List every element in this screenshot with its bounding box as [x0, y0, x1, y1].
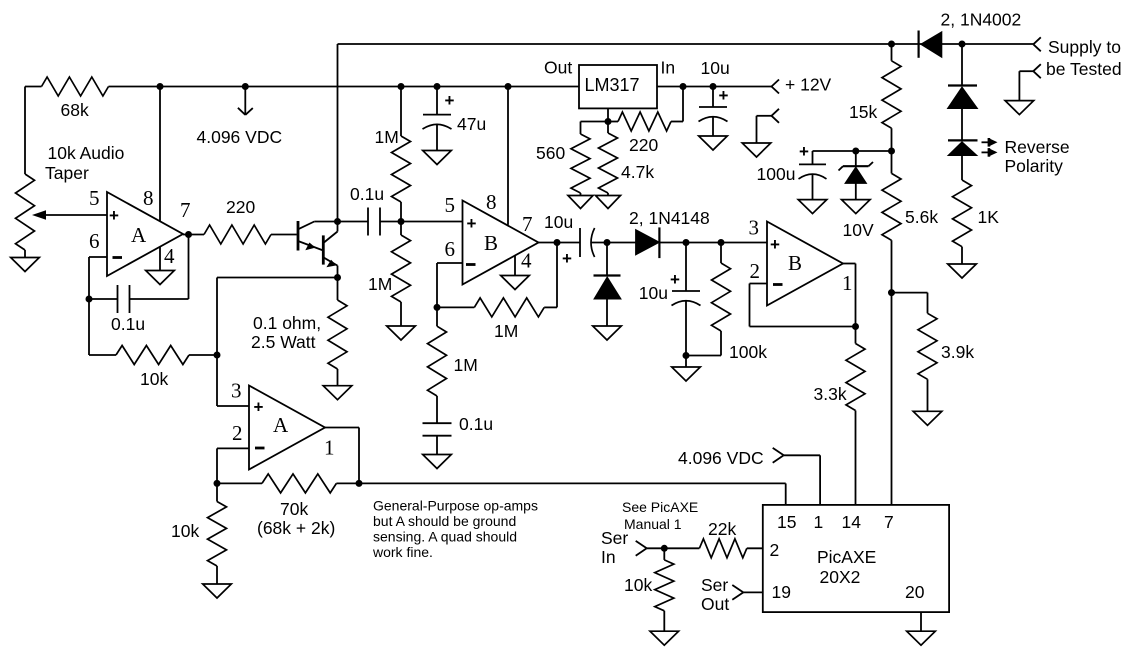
wire LM317 in rail: [657, 86, 772, 88]
node 4.096 VDC arrow: [242, 83, 249, 90]
svg-text:7: 7: [180, 198, 191, 222]
ground 4.7k: [596, 196, 621, 209]
svg-text:+: +: [670, 270, 680, 289]
wire U2A pin2: [217, 447, 249, 449]
wire left column to A2 pin3: [216, 278, 218, 407]
svg-text:7: 7: [522, 212, 533, 236]
svg-text:8: 8: [486, 190, 497, 214]
capacitor 10u input: [712, 87, 714, 108]
top supply rail (wire): [338, 43, 1034, 45]
svg-text:2: 2: [750, 259, 761, 283]
ground 3.9k: [913, 411, 942, 425]
transistor Q1: [297, 221, 300, 251]
wire to zener: [813, 150, 892, 152]
svg-text:+ 12V: + 12V: [785, 75, 832, 95]
wire U2B out: [843, 263, 856, 265]
connector Supply to be Tested: [1033, 37, 1041, 44]
capacitor 10u coupling: [579, 228, 581, 257]
wire Q1 collector: [314, 221, 337, 223]
svg-text:Reverse: Reverse: [1005, 137, 1070, 157]
svg-text:10u: 10u: [701, 58, 730, 78]
svg-text:19: 19: [772, 582, 791, 602]
wire diode to B2: [659, 242, 767, 244]
svg-text:B: B: [788, 251, 802, 275]
svg-text:3: 3: [749, 216, 760, 240]
wire pot bottom: [24, 250, 26, 258]
svg-text:220: 220: [629, 135, 658, 155]
svg-text:3.9k: 3.9k: [941, 342, 974, 362]
svg-text:4: 4: [521, 249, 532, 273]
svg-text:20: 20: [905, 582, 925, 602]
svg-text:6: 6: [445, 237, 456, 261]
ground 10u input: [699, 136, 728, 150]
svg-text:1: 1: [842, 271, 853, 295]
svg-text:7: 7: [884, 512, 894, 532]
svg-text:560: 560: [536, 143, 565, 163]
svg-text:100k: 100k: [729, 342, 767, 362]
resistor 3.9k: [892, 292, 928, 294]
resistor 1M feedback: [474, 298, 544, 317]
connector 12V return: [772, 109, 780, 116]
wire U1A output: [183, 234, 204, 236]
wire cap2 left: [338, 221, 369, 223]
resistor 220 adj: [608, 121, 618, 123]
wire U1A pin6: [89, 256, 107, 258]
svg-text:1M: 1M: [368, 274, 392, 294]
svg-text:1: 1: [324, 436, 335, 460]
zener diode 10V: [855, 151, 857, 166]
resistor 10k pulldown: [663, 548, 665, 560]
node fb left: [214, 480, 221, 487]
svg-text:LM317: LM317: [585, 75, 640, 95]
svg-text:5.6k: 5.6k: [905, 207, 938, 227]
svg-text:6: 6: [89, 229, 100, 253]
svg-text:10u: 10u: [544, 212, 573, 232]
wire 4.096 rail long: [359, 482, 786, 484]
wire U1B pin4: [514, 256, 516, 276]
svg-text:14: 14: [842, 512, 862, 532]
svg-text:68k: 68k: [61, 100, 89, 120]
LED arrows: [982, 141, 990, 143]
node 5.6k bottom: [888, 289, 895, 296]
wire left column: [24, 87, 26, 175]
ground U1B: [501, 276, 530, 290]
resistor 1M upper: [400, 87, 402, 137]
svg-text:1: 1: [814, 512, 824, 532]
resistor 220: [204, 225, 271, 244]
svg-text:+: +: [445, 91, 455, 110]
wire U2A pin3: [217, 405, 249, 407]
resistor 70k: [217, 482, 262, 484]
svg-text:10k Audio: 10k Audio: [48, 143, 125, 163]
wire 4.096V rail: [109, 86, 580, 88]
resistor 5.6k: [891, 151, 893, 173]
diode D1 1N4148: [636, 230, 660, 255]
diode D2 1N4148: [606, 243, 608, 276]
svg-text:1K: 1K: [978, 207, 1000, 227]
svg-text:70k: 70k: [280, 499, 308, 519]
wire U1A pin4: [159, 247, 161, 271]
wire U2B pin2: [750, 283, 768, 285]
op-amp U1A: [107, 192, 183, 276]
wire U1B pin6: [437, 262, 463, 264]
svg-text:0.1u: 0.1u: [350, 184, 384, 204]
resistor 560: [581, 121, 609, 123]
regulator LM317: [579, 65, 657, 108]
ground 10k pulldown: [650, 631, 679, 645]
ground zener: [842, 200, 871, 214]
wire U1A pin8: [159, 87, 161, 222]
svg-text:2, 1N4002: 2, 1N4002: [941, 10, 1022, 30]
svg-text:PicAXE: PicAXE: [817, 547, 876, 567]
node diode anode: [959, 41, 966, 48]
svg-text:Polarity: Polarity: [1005, 156, 1064, 176]
wire U1B out: [539, 242, 580, 244]
node 15k bottom: [888, 148, 895, 155]
resistor 22k: [699, 539, 746, 558]
op-amp U1B: [463, 201, 539, 285]
wire U1B feedback riser: [556, 243, 558, 308]
svg-text:5: 5: [89, 186, 100, 210]
wire Ser In: [647, 547, 700, 549]
svg-text:+: +: [254, 398, 264, 417]
svg-text:+: +: [562, 249, 572, 268]
transistor Q2: [322, 235, 325, 264]
potentiometer 10k Audio Taper: [16, 174, 35, 250]
ground 12V return: [742, 143, 771, 157]
svg-text:10k: 10k: [624, 575, 652, 595]
wire base: [271, 234, 297, 236]
svg-text:Ser: Ser: [601, 528, 628, 548]
svg-text:Supply to: Supply to: [1048, 37, 1121, 57]
svg-text:2: 2: [770, 540, 780, 560]
connector supply return: [1033, 64, 1041, 71]
svg-text:47u: 47u: [457, 114, 486, 134]
wire pin20 ground: [920, 612, 922, 631]
resistor 1K: [961, 156, 963, 181]
svg-text:15k: 15k: [849, 102, 877, 122]
svg-text:work fine.: work fine.: [372, 544, 433, 560]
svg-text:10k: 10k: [140, 369, 168, 389]
svg-text:In: In: [661, 58, 676, 78]
svg-text:1M: 1M: [454, 355, 478, 375]
svg-text:2, 1N4148: 2, 1N4148: [629, 208, 710, 228]
svg-text:3: 3: [231, 379, 242, 403]
svg-text:Ser: Ser: [701, 575, 728, 595]
wire 4.096V rail left segment: [25, 86, 42, 88]
ground U1A: [146, 271, 175, 285]
svg-text:5: 5: [445, 193, 456, 217]
svg-text:+: +: [109, 206, 119, 225]
svg-text:+: +: [719, 86, 729, 105]
ground D2: [593, 326, 622, 340]
svg-text:In: In: [601, 547, 616, 567]
svg-text:15: 15: [777, 512, 796, 532]
wire cap left: [89, 298, 118, 300]
svg-text:General-Purpose op-amps: General-Purpose op-amps: [373, 498, 538, 514]
ground 0.1u bottom: [423, 455, 452, 469]
svg-text:1M: 1M: [375, 127, 399, 147]
svg-text:4: 4: [164, 244, 175, 268]
wire cap bottom: [436, 436, 438, 455]
resistor 15k: [891, 44, 893, 61]
svg-text:4.7k: 4.7k: [621, 162, 654, 182]
wire Q2 emitter down: [337, 266, 339, 278]
svg-text:8: 8: [143, 186, 154, 210]
svg-text:10k: 10k: [171, 521, 199, 541]
svg-text:4.096 VDC: 4.096 VDC: [678, 448, 764, 468]
op-amp U2A: [249, 386, 325, 470]
svg-text:but A should be ground: but A should be ground: [373, 513, 516, 529]
svg-text:Taper: Taper: [45, 163, 89, 183]
svg-text:3.3k: 3.3k: [814, 384, 847, 404]
wire to 10k: [89, 354, 116, 356]
op-amp U2B: [767, 222, 843, 306]
capacitor 47u: [436, 87, 438, 115]
resistor 68k: [42, 77, 109, 96]
svg-text:0.1u: 0.1u: [459, 414, 493, 434]
ground pot: [11, 258, 40, 272]
svg-text:Manual 1: Manual 1: [624, 516, 682, 532]
resistor 4.7k: [607, 122, 609, 134]
wire fb right: [544, 306, 557, 308]
ground 100u: [798, 200, 827, 214]
wire emitter to left: [217, 277, 338, 279]
svg-text:4.096 VDC: 4.096 VDC: [197, 127, 283, 147]
resistor 0.1 ohm: [337, 278, 339, 301]
ground 0.1 ohm: [323, 386, 352, 400]
svg-text:See PicAXE: See PicAXE: [622, 499, 698, 515]
node cap/100k: [683, 352, 690, 359]
wire 10k to node: [189, 354, 217, 356]
svg-text:sensing. A quad should: sensing. A quad should: [373, 529, 517, 545]
svg-text:(68k + 2k): (68k + 2k): [257, 518, 335, 538]
svg-text:A: A: [273, 413, 289, 437]
resistor 1M lower: [400, 222, 402, 236]
svg-text:10u: 10u: [639, 283, 668, 303]
ground 560: [568, 196, 593, 209]
svg-text:+: +: [467, 214, 477, 233]
ground pin20: [907, 631, 936, 645]
svg-text:1M: 1M: [494, 321, 518, 341]
ground 10u filter: [672, 367, 701, 381]
capacitor 0.1u U1A feedback: [117, 285, 119, 313]
resistor 3.3k: [855, 327, 857, 344]
wire U1B pin8: [507, 87, 509, 225]
wire cap2 right: [380, 221, 463, 223]
wire U2A out: [325, 427, 359, 429]
ground 10k: [203, 584, 232, 598]
wire fb left: [437, 306, 474, 308]
LED 1: [961, 44, 963, 86]
resistor 100k: [720, 243, 722, 264]
svg-text:B: B: [484, 231, 498, 255]
ground 1M lower: [387, 326, 416, 340]
svg-text:20X2: 20X2: [820, 567, 861, 587]
ground 47u: [423, 151, 452, 165]
svg-text:2.5 Watt: 2.5 Watt: [251, 332, 316, 352]
wire cap right: [130, 298, 189, 300]
wire collector riser: [337, 44, 339, 232]
svg-text:+: +: [799, 142, 809, 161]
LED 2: [961, 109, 963, 141]
svg-text:2: 2: [232, 421, 243, 445]
wire 220 up: [682, 87, 684, 122]
resistor 10k horizontal: [116, 346, 189, 365]
capacitor 0.1u coupling: [367, 208, 369, 236]
capacitor 0.1u bottom: [423, 422, 452, 424]
svg-text:A: A: [131, 223, 147, 247]
svg-text:be Tested: be Tested: [1046, 59, 1122, 79]
ground supply return: [1005, 101, 1034, 115]
resistor 1M vertical: [436, 307, 438, 326]
svg-text:Out: Out: [701, 594, 729, 614]
svg-text:10V: 10V: [843, 220, 874, 240]
svg-text:Out: Out: [544, 58, 572, 78]
wire LM317 adj: [607, 108, 609, 121]
svg-text:220: 220: [226, 197, 255, 217]
diode 1N4002: [921, 32, 942, 58]
capacitor 100u: [812, 151, 814, 164]
node emitter junction: [334, 274, 341, 281]
wire feedback riser: [188, 235, 190, 300]
wire cap to diode: [592, 242, 636, 244]
svg-text:+: +: [770, 235, 780, 254]
pot wiper arrow: [46, 214, 107, 216]
capacitor 10u filter: [685, 243, 687, 292]
svg-text:0.1u: 0.1u: [111, 314, 145, 334]
svg-text:0.1 ohm,: 0.1 ohm,: [253, 313, 321, 333]
wire cap gnd: [685, 356, 687, 368]
connector +12V: [772, 80, 780, 87]
IC PicAXE 20X2: [763, 505, 949, 612]
svg-text:22k: 22k: [708, 519, 736, 539]
resistor 10k vertical: [216, 483, 218, 501]
ground 1K: [948, 264, 977, 278]
svg-text:100u: 100u: [757, 164, 796, 184]
